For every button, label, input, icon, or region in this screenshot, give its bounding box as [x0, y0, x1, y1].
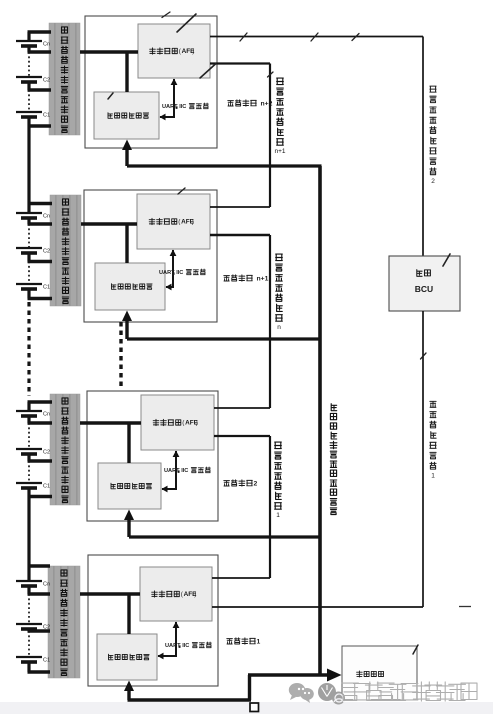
wire: battery stack bus (unit 2): [27, 402, 30, 497]
wire: cell tap 4 to sensor block (unit 2): [28, 495, 53, 498]
label: daisy-chain comms cascade n+1: [274, 78, 285, 155]
wire: daisy-chain cascade n (AFE n+1 to AFE 2): [210, 235, 270, 408]
wire: balancing energy arrow into balancing circuit (unit 1): [124, 681, 134, 701]
wire: cell tap 2 to sensor block (unit n+1): [28, 222, 53, 225]
wire: cell tap 2 to sensor block (unit 2): [28, 421, 53, 424]
label: active balancing energy bidirectional transfer loop: [330, 404, 337, 515]
label: daisy-chain comms cascade 1: [275, 442, 282, 519]
svg-text:n: n: [277, 324, 281, 331]
label: communication unit 1: [227, 638, 261, 646]
wire: daisy-chain loop 1 (BCU to AFE 1): [212, 311, 423, 607]
wire: sensed-cell feed from sensor block to AFE (unit 2): [80, 421, 141, 424]
wire: balancing return line to unit 1 arrow: [128, 698, 252, 701]
wire: sensed-cell feed from sensor block to AFE (unit n+2): [80, 50, 138, 53]
battery cell Cn (unit n+1): [16, 213, 50, 220]
battery parameter acquisition sensor circuit block (unit n+2): [49, 23, 80, 135]
wire: balancing loop tap of unit 2 to main bus: [129, 535, 322, 538]
svg-text:): ): [192, 219, 194, 226]
annotation tick on unit n+1 box edge: [178, 188, 185, 194]
wire: sensed-cell feed from sensor block to AFE (unit n+1): [81, 222, 137, 225]
AFE acquisition chip (unit 2): [141, 395, 214, 450]
wire: branch down to balancing circuit input (unit 1): [127, 594, 130, 634]
terminal: external connection square: [250, 703, 259, 712]
svg-text:C1: C1: [43, 484, 50, 490]
wire: cell tap 4 to sensor block (unit n+1): [28, 297, 53, 300]
wire: daisy-chain cascade n+1 (AFE n+2 to AFE n+1): [210, 64, 270, 208]
AFE acquisition chip (unit n+2): [138, 24, 210, 78]
main controller BCU: [389, 256, 460, 311]
annotation tick on AFE n+2 lower corner: [200, 64, 216, 79]
battery cell C1 (unit 1): [16, 657, 50, 664]
battery cell C2 (unit n+1): [16, 248, 50, 255]
annotation tick on AFE n+2 chip: [177, 14, 196, 32]
svg-text:2: 2: [431, 178, 435, 185]
battery parameter acquisition sensor circuit block (unit 1): [48, 566, 80, 678]
svg-text:2: 2: [254, 481, 258, 488]
annotation ticks on loop 2 wire: [240, 33, 359, 41]
battery cell Cn (unit 2): [16, 411, 50, 418]
svg-text:): ): [194, 591, 196, 598]
annotation tick at BCU corner: [443, 254, 450, 266]
label: daisy-chain comms cascade n: [276, 254, 283, 331]
wire: balancing loop tap of unit n+2 to main bus: [127, 164, 322, 167]
communication unit n+1 outer box: [84, 190, 217, 322]
battery cell C2 (unit 1): [16, 624, 50, 631]
annotation tick on unit n+2 box edge: [162, 12, 170, 18]
wire: branch down to balancing circuit input (unit n+1): [125, 224, 128, 263]
wire: cell tap 1 to sensor block (unit 1): [28, 564, 51, 567]
wire: balancing energy arrow into balancing circuit (unit 2): [124, 510, 134, 538]
AFE acquisition chip (unit 1): [140, 567, 212, 621]
svg-text:IIC: IIC: [181, 468, 188, 474]
active balancing circuit (unit 1): [97, 634, 157, 680]
annotation tick inside balancing circuit n+2: [108, 93, 113, 99]
battery parameter acquisition sensor circuit block (unit n+1): [50, 195, 81, 306]
svg-text:n+1: n+1: [257, 276, 269, 283]
communication unit 2 outer box: [87, 391, 218, 521]
wire: UART/IIC link AFE to balancing circuit (unit n+2): [160, 79, 178, 121]
label: UART/IIC comms (unit n+1): [159, 269, 205, 276]
svg-text:C1: C1: [43, 113, 50, 119]
wire: UART/IIC link AFE to balancing circuit (unit n+1): [166, 250, 177, 291]
active balancing circuit (unit n+1): [95, 263, 165, 310]
wire: UART/IIC link AFE to balancing circuit (unit 2): [162, 451, 180, 493]
svg-text:C1: C1: [43, 658, 50, 664]
wire: cell tap 1 to sensor block (unit n+1): [28, 202, 53, 205]
label: communication unit 2: [224, 480, 258, 488]
wire: series link battery stack unit n+2 to n+1: [27, 126, 30, 204]
annotation tick on loop 1 wire: [421, 353, 427, 359]
battery cell C1 (unit 2): [16, 483, 50, 490]
wire: daisy-chain loop 2 (AFE n+2 to BCU): [210, 37, 423, 257]
annotation tick on cascade n+1 wire: [268, 72, 274, 77]
battery cell Cn (unit n+2): [16, 41, 50, 48]
wire: balancing energy arrow into balancing circuit (unit n+2): [122, 140, 132, 167]
svg-text:): ): [192, 48, 194, 55]
wire: main active-balancing energy bus (vertical): [318, 166, 322, 675]
svg-text:n+1: n+1: [274, 148, 285, 155]
wire: cell tap 3 to sensor block (unit n+2): [28, 88, 52, 91]
wire: battery stack bus (unit n+2): [27, 32, 30, 126]
active balancing circuit (unit 2): [98, 463, 161, 509]
battery parameter acquisition sensor circuit block (unit 2): [50, 394, 80, 505]
stray dash mark: [459, 606, 471, 608]
wire: branch down to balancing circuit input (unit 2): [127, 423, 130, 463]
battery cell C2 (unit 2): [16, 449, 50, 456]
communication unit n+2 outer box: [85, 16, 217, 148]
wire: battery stack bus (unit 1): [27, 566, 30, 672]
svg-text:IIC: IIC: [179, 104, 186, 110]
battery cell C1 (unit n+2): [16, 112, 50, 119]
battery cell C2 (unit n+2): [16, 77, 50, 84]
wire: cell tap 1 to sensor block (unit n+2): [28, 30, 52, 33]
label: UART/IIC comms (unit n+2): [162, 103, 208, 110]
wire: battery stack bus (unit n+1): [27, 204, 30, 299]
label: communication unit n+1: [224, 275, 269, 283]
wire: cell tap 4 to sensor block (unit 1): [28, 670, 51, 673]
svg-text:C2: C2: [43, 625, 50, 631]
svg-text:IIC: IIC: [176, 270, 183, 276]
wire: cell tap 2 to sensor block (unit 1): [28, 592, 51, 595]
svg-text:C1: C1: [43, 285, 50, 291]
label: UART/IIC comms (unit 2): [164, 467, 210, 474]
label: daisy-chain comms cascade loop 2: [430, 86, 436, 185]
svg-text:BCU: BCU: [415, 284, 433, 294]
battery cell Cn (unit 1): [16, 581, 50, 588]
watermark: WeChat icons and public account text: [0, 682, 493, 714]
wire: supply feed line to power supply with arrow: [248, 669, 342, 682]
svg-text:Cn: Cn: [43, 42, 50, 48]
wire: UART/IIC link AFE to balancing circuit (unit 1): [158, 622, 180, 660]
wire: cell tap 2 to sensor block (unit n+2): [28, 50, 52, 53]
annotation tick at power supply corner: [413, 645, 418, 654]
wire: series link battery stack unit 2 to unit 1: [27, 497, 30, 567]
AFE acquisition chip (unit n+1): [137, 194, 210, 249]
communication unit 1 outer box: [88, 555, 218, 686]
wire: dashed continuation of balancing feed (omitted units): [119, 322, 122, 387]
svg-text:1: 1: [431, 472, 435, 479]
battery cell C1 (unit n+1): [16, 284, 50, 291]
svg-text:C2: C2: [43, 249, 50, 255]
wire: cell tap 3 to sensor block (unit 2): [28, 459, 53, 462]
label: communication unit n+2: [228, 100, 273, 108]
label: UART/IIC comms (unit 1): [165, 642, 211, 649]
svg-text:): ): [196, 420, 198, 427]
wire: dashed continuation of battery stack (omitted units): [27, 302, 30, 396]
wire: cell tap 1 to sensor block (unit 2): [28, 400, 53, 403]
active balancing circuit (unit n+2): [94, 92, 159, 139]
svg-text:C2: C2: [43, 450, 50, 456]
wire: bus tail to supply feed line: [248, 675, 251, 700]
power supply box: [342, 646, 417, 700]
label: daisy-chain comms cascade loop 1: [430, 401, 436, 479]
wire: cell tap 4 to sensor block (unit n+2): [28, 124, 52, 127]
wire: branch down to balancing circuit input (unit n+2): [125, 52, 128, 92]
wire: balancing energy arrow into balancing circuit (unit n+1): [122, 311, 132, 340]
svg-text:Cn: Cn: [43, 214, 50, 220]
svg-text:C2: C2: [43, 78, 50, 84]
wire: balancing loop tap of unit n+1 to main bus: [127, 337, 322, 340]
svg-text:Cn: Cn: [43, 412, 50, 418]
svg-text:1: 1: [257, 639, 261, 646]
svg-text:1: 1: [276, 512, 280, 519]
wire: cell tap 3 to sensor block (unit 1): [28, 629, 51, 632]
svg-text:Cn: Cn: [43, 582, 50, 588]
wire: daisy-chain cascade 1 (AFE 2 to AFE 1): [212, 436, 270, 578]
wire: sensed-cell feed from sensor block to AFE (unit 1): [80, 592, 140, 595]
wire: cell tap 3 to sensor block (unit n+1): [28, 260, 53, 263]
svg-text:IIC: IIC: [182, 643, 189, 649]
